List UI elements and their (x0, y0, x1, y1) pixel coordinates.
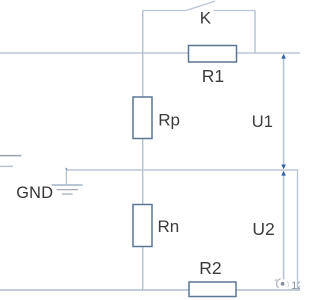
svg-text:U1: U1 (252, 113, 273, 131)
svg-text:K: K (200, 8, 212, 27)
resistor R1 (189, 46, 237, 63)
svg-text:R1: R1 (202, 66, 224, 86)
svg-text:Rn: Rn (158, 217, 180, 236)
wire switch right vertical (254, 11, 256, 54)
svg-text:12: 12 (291, 280, 300, 292)
wire middle ground rail (66, 170, 297, 290)
arrow U1 (281, 54, 286, 169)
resistor Rp (133, 97, 152, 139)
wire bottom rail (0, 289, 300, 291)
svg-text:R2: R2 (199, 258, 221, 278)
watermark (274, 279, 303, 293)
resistor Rn (133, 205, 152, 247)
arrow U2 (281, 171, 286, 289)
svg-text:Rp: Rp (158, 111, 180, 130)
wire left vertical branch (142, 11, 144, 291)
ground partial at left edge (0, 156, 22, 167)
ground (52, 168, 83, 194)
wire top rail (0, 52, 300, 54)
switch K (143, 1, 255, 10)
resistor R2 (189, 282, 236, 297)
svg-text:GND: GND (16, 184, 53, 202)
svg-text:U2: U2 (252, 219, 274, 239)
